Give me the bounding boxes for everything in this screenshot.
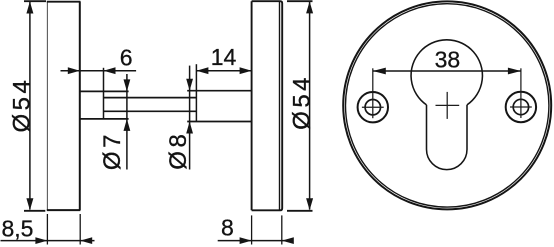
svg-text:Ø7: Ø7 [99,131,126,170]
svg-text:Ø54: Ø54 [8,77,35,133]
svg-text:Ø54: Ø54 [288,74,315,130]
svg-text:6: 6 [120,45,133,71]
svg-text:8: 8 [221,214,234,240]
svg-text:38: 38 [435,46,461,72]
svg-text:8,5: 8,5 [2,215,34,241]
svg-text:14: 14 [211,44,237,70]
svg-text:Ø8: Ø8 [165,131,192,170]
